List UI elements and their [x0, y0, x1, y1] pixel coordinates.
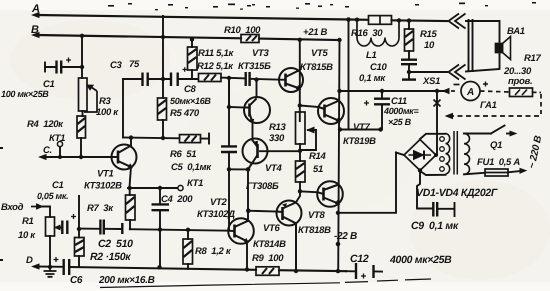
svg-text:ВА1: ВА1 [507, 26, 525, 37]
svg-text:50мк×16В: 50мк×16В [170, 96, 211, 106]
svg-text:4000 мк×25В: 4000 мк×25В [389, 254, 452, 266]
svg-text:VT5: VT5 [311, 48, 329, 59]
svg-text:R2 ·150к: R2 ·150к [90, 251, 131, 263]
svg-text:R4 120к: R4 120к [27, 119, 64, 130]
svg-text:R17: R17 [524, 53, 542, 64]
svg-text:D: D [26, 255, 33, 266]
svg-text:С1: С1 [52, 180, 64, 191]
svg-text:R3: R3 [99, 96, 112, 107]
svg-text:С4 200: С4 200 [161, 194, 193, 205]
svg-text:100 мк×25В: 100 мк×25В [1, 89, 49, 99]
svg-text:пров.: пров. [508, 76, 532, 87]
svg-text:330: 330 [269, 133, 285, 144]
svg-text:10: 10 [424, 40, 435, 51]
svg-text:КТ819В: КТ819В [343, 136, 376, 147]
svg-text:В: В [31, 24, 39, 36]
svg-text:Q1: Q1 [490, 140, 502, 151]
svg-text:+21 В: +21 В [303, 27, 328, 38]
svg-text:0,1 мк: 0,1 мк [359, 73, 386, 84]
svg-text:ГА1: ГА1 [480, 100, 497, 111]
svg-text:А: А [31, 3, 40, 15]
svg-text:R9 100: R9 100 [252, 253, 284, 264]
svg-text:С10: С10 [370, 62, 388, 73]
svg-text:КТ1: КТ1 [187, 178, 203, 189]
svg-text:R16 30: R16 30 [351, 28, 383, 39]
svg-text:R15: R15 [420, 29, 438, 40]
svg-text:VT8: VT8 [308, 210, 326, 221]
svg-text:С3: С3 [110, 60, 123, 71]
svg-text:VD1-VD4 КД202Г: VD1-VD4 КД202Г [416, 187, 498, 199]
svg-text:0,05 мк.: 0,05 мк. [37, 191, 68, 201]
svg-text:С2 510: С2 510 [98, 238, 133, 250]
svg-text:51: 51 [313, 164, 323, 175]
svg-text:Вход: Вход [1, 202, 24, 213]
svg-text:КТ1: КТ1 [49, 133, 65, 144]
svg-text:КТ315Б: КТ315Б [238, 61, 271, 72]
svg-text:FU1 0,5 А: FU1 0,5 А [477, 157, 520, 168]
svg-text:R13: R13 [269, 122, 287, 133]
svg-text:С12: С12 [350, 253, 369, 265]
svg-text:VT6: VT6 [263, 223, 281, 234]
svg-text:L1: L1 [366, 50, 377, 61]
svg-text:С.: С. [43, 145, 52, 156]
svg-text:А: А [466, 87, 474, 98]
svg-text:С8: С8 [184, 84, 197, 95]
svg-text:R11 5,1к: R11 5,1к [198, 48, 234, 59]
svg-text:100 к: 100 к [96, 107, 119, 118]
svg-text:R5 470: R5 470 [170, 108, 200, 119]
svg-text:R6 51: R6 51 [170, 149, 196, 160]
svg-text:VT7: VT7 [353, 122, 371, 133]
svg-text:75: 75 [129, 59, 140, 70]
svg-text:С5 0,1мк: С5 0,1мк [171, 162, 212, 173]
svg-text:-22 В: -22 В [334, 231, 357, 242]
svg-text:КТ815В: КТ815В [300, 62, 333, 73]
svg-text:R1: R1 [22, 216, 34, 227]
svg-text:С9 0,1 мк: С9 0,1 мк [411, 220, 459, 232]
svg-text:ГТ308Б: ГТ308Б [246, 181, 279, 192]
svg-text:VT1: VT1 [97, 169, 114, 180]
svg-text:ХS1: ХS1 [422, 76, 440, 87]
svg-text:10 к: 10 к [18, 230, 36, 241]
svg-text:КТ818В: КТ818В [298, 225, 331, 236]
svg-text:R7 3к: R7 3к [87, 203, 114, 214]
svg-text:КТ3102В: КТ3102В [84, 181, 122, 192]
svg-text:VT2: VT2 [210, 197, 228, 208]
svg-text:VT3: VT3 [252, 48, 270, 59]
svg-text:КТ3102Д: КТ3102Д [197, 209, 235, 220]
svg-text:×25 В: ×25 В [388, 117, 412, 127]
svg-text:R12 5,1к: R12 5,1к [197, 61, 234, 72]
svg-text:R8 1,2 к: R8 1,2 к [195, 246, 232, 257]
svg-text:КТ814В: КТ814В [253, 239, 286, 250]
svg-text:200 мк×16.В: 200 мк×16.В [98, 275, 155, 286]
svg-text:VT4: VT4 [265, 163, 283, 174]
svg-text:R14: R14 [309, 151, 327, 162]
svg-text:4000мк=: 4000мк= [383, 106, 419, 116]
svg-text:С6: С6 [70, 275, 83, 286]
svg-text:R10 100: R10 100 [224, 25, 261, 36]
